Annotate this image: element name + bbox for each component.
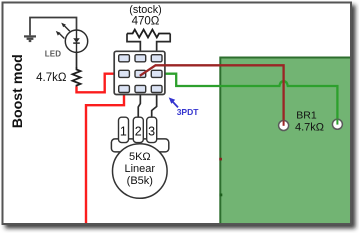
wire switch top-middle lug to 470Ω (left stub) [127,34,140,56]
svg-text:Boost mod: Boost mod [10,54,26,128]
pot body 5KΩ Linear (B5k) [113,144,168,199]
svg-text:Linear: Linear [125,163,156,175]
svg-text:470Ω: 470Ω [132,15,160,27]
PCB board [220,58,353,228]
wire switch bottom-right lug to pot terminal 3 [152,92,157,118]
switch lug pin 5 (center) [135,70,146,77]
svg-text:2: 2 [135,125,142,139]
switch lug pin 6 (middle-right) [151,70,162,77]
wire switch top-right lug to 470Ω (right stub) [157,34,171,56]
switch lug pin 7 (bottom-left) [119,85,130,92]
svg-text:5KΩ: 5KΩ [129,151,151,163]
wire ground to LED [30,18,77,36]
wire (dark red) stub into left pad [283,121,285,126]
wire (green) stub into right pad [336,119,338,124]
ground [24,36,36,41]
svg-text:BR1: BR1 [296,110,317,122]
switch lug pin 1 (top-left) [119,55,130,62]
pot terminal 2 [133,117,143,142]
switch lug pin 4 (middle-left) [119,70,130,77]
wire (red) switch bottom-left lug to bottom-left rail [86,92,124,224]
wire LED to resistor [76,52,78,67]
svg-text:4.7kΩ: 4.7kΩ [36,72,67,84]
pad BR1 right [332,119,342,129]
resistor 470Ω (stock) [127,30,170,38]
switch 3PDT body [114,51,165,94]
wire switch bottom-middle lug to pot terminal 2 [138,92,140,118]
resistor 4.7kΩ (LED series) [73,67,81,87]
potentiometer base plate [111,139,168,152]
switch lug pin 2 (top-middle) [135,55,146,62]
switch lug pin 8 (bottom-middle) [135,85,146,92]
svg-text:LED: LED [45,50,62,59]
pot terminal 1 [119,117,129,142]
wire (green) switch middle-right lug to BR1 right pad [162,74,337,125]
switch lug pin 3 (top-right) [151,55,162,62]
switch lug pin 9 (bottom-right) [151,85,162,92]
svg-text:3PDT: 3PDT [177,107,200,117]
wire (dark red) switch center lug to BR1 left pad [140,65,284,125]
LED [56,23,88,53]
node: dark green anchor dot on PCB left edge [220,194,223,197]
3PDT callout arrow [169,97,178,107]
svg-text:3: 3 [148,125,155,139]
pot terminal 3 [147,117,157,142]
pad BR1 left [279,121,289,131]
svg-text:(B5k): (B5k) [127,175,153,187]
node: dark red anchor dot on PCB left edge [219,158,222,161]
svg-text:4.7kΩ: 4.7kΩ [295,121,324,133]
wire (red) resistor bottom to switch middle-left lug [77,74,118,93]
svg-text:(stock): (stock) [129,4,161,16]
svg-text:1: 1 [120,125,127,139]
